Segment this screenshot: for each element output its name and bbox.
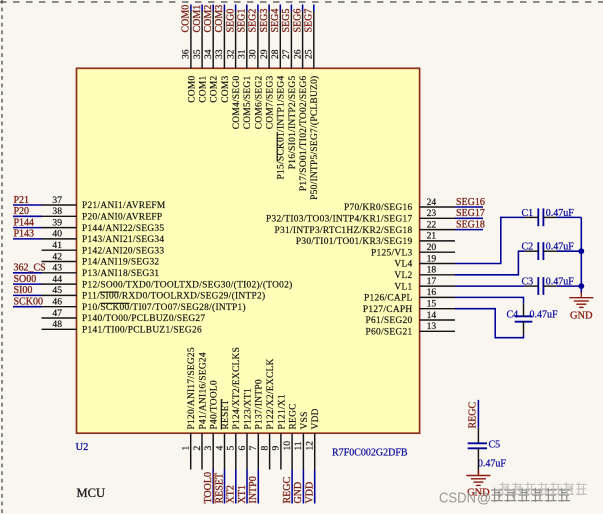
- svg-text:C4: C4: [507, 310, 519, 321]
- pin 37 of U2: [42, 204, 77, 206]
- svg-text:SEG7: SEG7: [304, 9, 315, 33]
- svg-text:P41/ANI16/SEG24: P41/ANI16/SEG24: [198, 352, 208, 429]
- pin 1 of C5: [477, 428, 479, 444]
- svg-text:11: 11: [293, 441, 304, 450]
- svg-text:SCK00: SCK00: [14, 297, 43, 308]
- svg-text:P50/INTP5/SEG7/(PCLBUZ0): P50/INTP5/SEG7/(PCLBUZ0): [309, 76, 320, 200]
- svg-text:P32/TI03/TO03/INTP4/KR1/SEG17: P32/TI03/TO03/INTP4/KR1/SEG17: [266, 215, 413, 225]
- pin 5 of U2: [235, 433, 237, 469]
- ground symbol (C5): [466, 471, 490, 486]
- wire VL2: pin18 to C2: [455, 251, 525, 275]
- svg-text:XT1: XT1: [237, 485, 248, 503]
- svg-text:P20: P20: [14, 206, 30, 217]
- pin 32 of U2: [235, 11, 237, 68]
- svg-text:COM3: COM3: [214, 5, 225, 33]
- sheet border top (dashed): [0, 1, 603, 3]
- capacitor C4: [515, 315, 533, 317]
- svg-text:COM3: COM3: [221, 75, 231, 102]
- pin 9 of U2: [280, 433, 282, 469]
- wire net SEG1 (top pin 31): [246, 5, 248, 12]
- svg-text:COM0: COM0: [187, 75, 197, 102]
- svg-text:RESET: RESET: [214, 473, 225, 504]
- pin 22 of U2: [420, 229, 455, 231]
- svg-text:XT2: XT2: [226, 485, 237, 503]
- svg-text:SEG0: SEG0: [225, 9, 236, 33]
- wire VL1: pin17 to C3: [455, 285, 525, 287]
- svg-text:P126/CAPL: P126/CAPL: [364, 294, 413, 304]
- capacitor C3: [537, 277, 539, 295]
- svg-text:P120/ANI17/SEG25: P120/ANI17/SEG25: [187, 347, 197, 429]
- svg-text:REGC: REGC: [467, 402, 478, 429]
- svg-text:41: 41: [52, 240, 62, 251]
- wire net |RESET| (bottom pin 4): [224, 470, 226, 504]
- wire net SEG17 (right pin 23): [455, 217, 483, 219]
- wire net XT1 (bottom pin 6): [246, 470, 248, 504]
- svg-text:48: 48: [52, 319, 62, 330]
- svg-text:43: 43: [52, 263, 62, 274]
- svg-text:32: 32: [225, 49, 236, 59]
- MCU U2 body rectangle (R7F0C002G2DFB): [77, 68, 420, 433]
- pin 44 of U2: [42, 283, 77, 285]
- pin 47 of U2: [42, 317, 77, 319]
- pin 13 of U2: [420, 330, 455, 332]
- svg-text:COM0: COM0: [181, 5, 192, 33]
- svg-text:SEG2: SEG2: [248, 9, 259, 33]
- svg-text:REGC: REGC: [282, 477, 293, 504]
- wire net SCK00 (left pin 46): [13, 306, 42, 308]
- svg-text:42: 42: [52, 251, 62, 262]
- pin 16 of U2: [420, 296, 455, 298]
- svg-text:C2: C2: [522, 242, 534, 253]
- pin 14 of U2: [420, 319, 455, 321]
- svg-text:47: 47: [52, 308, 62, 319]
- pins of C2: [525, 250, 539, 252]
- capacitor C1: [537, 208, 539, 226]
- wire C3 to GND bus: [557, 285, 581, 287]
- svg-text:7: 7: [248, 446, 259, 451]
- wire net P143 (left pin 40): [13, 238, 42, 240]
- svg-text:MCU: MCU: [77, 486, 105, 500]
- wire net REGC (to C5): [477, 400, 479, 428]
- wire net P144 (left pin 39): [13, 227, 42, 229]
- svg-text:P20/ANI0/AVREFP: P20/ANI0/AVREFP: [82, 213, 162, 223]
- capacitor C2: [537, 242, 539, 260]
- svg-text:362_CS: 362_CS: [14, 263, 46, 274]
- svg-text:SEG5: SEG5: [281, 9, 292, 33]
- svg-text:R7F0C002G2DFB: R7F0C002G2DFB: [332, 448, 408, 459]
- svg-text:COM4/SEG0: COM4/SEG0: [232, 75, 242, 129]
- svg-text:P17/SO01/TI02/TO02/SEG6: P17/SO01/TI02/TO02/SEG6: [299, 75, 309, 191]
- svg-text:1: 1: [181, 446, 192, 451]
- svg-text:SEG18: SEG18: [456, 219, 485, 230]
- svg-text:3: 3: [203, 446, 214, 451]
- wire net SEG7 (top pin 25): [313, 5, 315, 12]
- wire net 362_CS (left pin 43): [13, 272, 42, 274]
- svg-text:CSDN: CSDN: [439, 491, 476, 507]
- svg-text:VL2: VL2: [394, 271, 412, 281]
- pin 15 of U2: [420, 308, 455, 310]
- wire net COM0 (top pin 36): [190, 5, 192, 12]
- svg-text:34: 34: [203, 49, 214, 59]
- svg-text:0.47uF: 0.47uF: [478, 459, 507, 470]
- svg-text:P60/SEG21: P60/SEG21: [366, 328, 413, 338]
- svg-text:P143/ANI21/SEG34: P143/ANI21/SEG34: [82, 235, 164, 245]
- wire GND bus vertical: [580, 217, 582, 292]
- svg-text:REGC: REGC: [289, 403, 299, 429]
- wire net SO00 (left pin 44): [13, 283, 42, 285]
- svg-text:P144: P144: [14, 217, 35, 228]
- svg-text:SEG17: SEG17: [456, 208, 485, 219]
- svg-text:29: 29: [259, 49, 270, 59]
- wire net SI00 (left pin 45): [13, 294, 42, 296]
- svg-text:C3: C3: [522, 277, 534, 288]
- wire VL4: pin19 to C1: [455, 217, 525, 263]
- wire CAPL: pin16 to C4 top: [455, 297, 524, 303]
- pin 19 of U2: [420, 263, 455, 265]
- svg-text:VDD: VDD: [311, 408, 321, 429]
- wire net COM1 (top pin 35): [201, 5, 203, 12]
- svg-text:10: 10: [282, 441, 293, 451]
- svg-text:U2: U2: [76, 442, 89, 453]
- pin 8 of U2: [269, 433, 271, 469]
- svg-text:TOOL0: TOOL0: [203, 472, 214, 503]
- svg-text:COM1: COM1: [192, 5, 203, 33]
- pin 36 of U2: [190, 11, 192, 68]
- svg-text:23: 23: [427, 208, 437, 219]
- svg-text:2: 2: [192, 446, 203, 451]
- wire net P20 (left pin 38): [13, 215, 42, 217]
- wire net SEG16 (right pin 24): [455, 206, 483, 208]
- svg-text:P21/ANI1/AVREFM: P21/ANI1/AVREFM: [82, 201, 166, 211]
- svg-text:P124/XT2/EXCLKS: P124/XT2/EXCLKS: [232, 347, 242, 430]
- watermark CSDN (decorative): [439, 482, 587, 506]
- svg-text:30: 30: [248, 49, 259, 59]
- svg-text:C1: C1: [522, 208, 534, 219]
- svg-text:@: @: [477, 490, 491, 506]
- wire C2 to GND bus: [557, 250, 581, 252]
- pin 1 of U2: [190, 433, 192, 469]
- svg-text:5: 5: [226, 446, 237, 451]
- svg-text:GND: GND: [570, 311, 593, 322]
- pin 46 of U2: [42, 306, 77, 308]
- wire net INTP0 (bottom pin 7): [257, 470, 259, 504]
- svg-text:31: 31: [237, 49, 248, 59]
- sheet border left (dashed): [1, 0, 3, 514]
- pin 29 of U2: [268, 11, 270, 68]
- pin 25 of U2: [313, 11, 315, 68]
- pin 30 of U2: [257, 11, 259, 68]
- wire C1 to GND bus: [557, 216, 581, 218]
- svg-text:38: 38: [52, 206, 62, 217]
- svg-text:33: 33: [214, 49, 225, 59]
- svg-text:VL4: VL4: [394, 260, 412, 270]
- pin 28 of U2: [279, 11, 281, 68]
- svg-text:SEG6: SEG6: [292, 9, 303, 33]
- svg-text:P12/SO00/TXD0/TOOLTXD/SEG30/(T: P12/SO00/TXD0/TOOLTXD/SEG30/(TI02)/(TO02…: [82, 279, 293, 290]
- svg-text:P122/X2/EXCLK: P122/X2/EXCLK: [266, 358, 276, 429]
- pin 41 of U2: [42, 249, 77, 251]
- svg-text:P30/TI01/TO01/KR3/SEG19: P30/TI01/TO01/KR3/SEG19: [296, 237, 413, 247]
- svg-text:0.47uF: 0.47uF: [530, 310, 559, 321]
- svg-text:46: 46: [52, 297, 62, 308]
- svg-text:P144/ANI22/SEG35: P144/ANI22/SEG35: [82, 224, 164, 234]
- wire net SEG0 (top pin 32): [235, 5, 237, 12]
- svg-text:P40/TOOL0: P40/TOOL0: [210, 380, 220, 429]
- pin 48 of U2: [42, 328, 77, 330]
- wire net XT2 (bottom pin 5): [235, 470, 237, 504]
- svg-text:P121/X1: P121/X1: [277, 394, 287, 429]
- pin 35 of U2: [201, 11, 203, 68]
- svg-text:16: 16: [427, 287, 437, 298]
- svg-text:12: 12: [305, 441, 316, 451]
- svg-text:13: 13: [427, 321, 437, 332]
- pin 7 of U2: [257, 433, 259, 469]
- pin 42 of U2: [42, 261, 77, 263]
- svg-text:COM6/SEG2: COM6/SEG2: [254, 75, 264, 129]
- svg-text:37: 37: [52, 195, 62, 206]
- wire net SEG18 (right pin 22): [455, 229, 483, 231]
- wire net SEG2 (top pin 30): [257, 5, 259, 12]
- svg-text:15: 15: [427, 299, 437, 310]
- svg-text:35: 35: [192, 49, 203, 59]
- svg-text:21: 21: [427, 231, 437, 242]
- pins of C1: [525, 216, 539, 218]
- pin 12 of U2: [314, 433, 316, 469]
- wire net SEG5 (top pin 27): [290, 5, 292, 12]
- svg-text:COM5/SEG1: COM5/SEG1: [243, 75, 253, 129]
- svg-text:COM2: COM2: [210, 75, 220, 102]
- svg-text:C5: C5: [489, 440, 501, 451]
- pin 26 of U2: [302, 11, 304, 68]
- pin 24 of U2: [420, 206, 455, 208]
- pin 11 of U2: [302, 433, 304, 469]
- pin 2 of U2: [201, 433, 203, 469]
- svg-text:44: 44: [52, 274, 62, 285]
- svg-text:P61/SEG20: P61/SEG20: [366, 316, 413, 326]
- pin 3 of U2: [212, 433, 214, 469]
- pin 20 of U2: [420, 251, 455, 253]
- pin 4 of U2: [224, 433, 226, 469]
- pin 6 of U2: [246, 433, 248, 469]
- pin 34 of U2: [212, 11, 214, 68]
- pin 43 of U2: [42, 272, 77, 274]
- svg-text:P143: P143: [14, 229, 35, 240]
- svg-text:GND: GND: [293, 482, 304, 504]
- svg-text:36: 36: [181, 49, 192, 59]
- svg-text:6: 6: [237, 446, 248, 451]
- wire net GND (bottom pin 11): [302, 470, 304, 504]
- svg-text:SEG16: SEG16: [456, 197, 485, 208]
- svg-text:SI00: SI00: [14, 285, 33, 296]
- svg-text:P127/CAPH: P127/CAPH: [363, 305, 413, 315]
- wire CAPH: pin15 to C4 bottom: [455, 309, 524, 338]
- svg-text:COM7/SEG3: COM7/SEG3: [266, 75, 276, 129]
- svg-text:P15/SCK01/INTP1/SEG4: P15/SCK01/INTP1/SEG4: [277, 75, 287, 179]
- wire net TOOL0 (bottom pin 3): [212, 470, 214, 504]
- pin 18 of U2: [420, 274, 455, 276]
- wire net COM3 (top pin 33): [223, 5, 225, 12]
- svg-text:P142/ANI20/SEG33: P142/ANI20/SEG33: [82, 246, 164, 256]
- svg-text:39: 39: [52, 217, 62, 228]
- svg-text:VSS: VSS: [300, 411, 310, 429]
- svg-text:COM1: COM1: [199, 75, 209, 102]
- pin 17 of U2: [420, 285, 455, 287]
- wire net SEG4 (top pin 28): [279, 5, 281, 12]
- svg-text:RESET: RESET: [221, 399, 231, 429]
- pin 23 of U2: [420, 217, 455, 219]
- svg-text:28: 28: [270, 49, 281, 59]
- svg-text:SEG4: SEG4: [270, 9, 281, 33]
- svg-text:17: 17: [427, 276, 437, 287]
- pin 38 of U2: [42, 215, 77, 217]
- wire net VDD (bottom pin 12): [314, 470, 316, 504]
- svg-text:27: 27: [281, 49, 292, 59]
- svg-text:P137/INTP0: P137/INTP0: [255, 379, 265, 429]
- svg-text:P11/SI00/RXD0/TOOLRXD/SEG29/(I: P11/SI00/RXD0/TOOLRXD/SEG29/(INTP2): [82, 291, 265, 302]
- pin 40 of U2: [42, 238, 77, 240]
- pin 2 of C5: [477, 448, 479, 474]
- pin 31 of U2: [246, 11, 248, 68]
- wire net SEG3 (top pin 29): [268, 5, 270, 12]
- svg-text:P10/SCK00/TI07/TO07/SEG28/(INT: P10/SCK00/TI07/TO07/SEG28/(INTP1): [82, 302, 246, 313]
- svg-text:24: 24: [427, 197, 437, 208]
- svg-text:P14/ANI19/SEG32: P14/ANI19/SEG32: [82, 258, 159, 268]
- svg-text:19: 19: [427, 253, 437, 264]
- svg-text:SEG3: SEG3: [259, 9, 270, 33]
- capacitor C5: [468, 442, 487, 444]
- ground symbol (right bus): [569, 293, 593, 308]
- svg-text:P31/INTP3/RTC1HZ/KR2/SEG18: P31/INTP3/RTC1HZ/KR2/SEG18: [275, 226, 413, 236]
- svg-text:VL1: VL1: [394, 282, 412, 292]
- svg-text:SO00: SO00: [14, 274, 37, 285]
- svg-text:45: 45: [52, 285, 62, 296]
- svg-text:P13/ANI18/SEG31: P13/ANI18/SEG31: [82, 269, 159, 279]
- svg-text:SEG1: SEG1: [237, 9, 248, 33]
- wire net P21 (left pin 37): [13, 204, 42, 206]
- wire net COM2 (top pin 34): [212, 5, 214, 12]
- svg-text:40: 40: [52, 229, 62, 240]
- wire net SEG6 (top pin 26): [302, 5, 304, 12]
- pin 45 of U2: [42, 294, 77, 296]
- svg-text:14: 14: [427, 310, 437, 321]
- junction dot C3/bus: [578, 283, 584, 289]
- svg-text:VDD: VDD: [305, 482, 316, 504]
- svg-text:P16/SI01/INTP2/SEG5: P16/SI01/INTP2/SEG5: [288, 75, 298, 169]
- svg-text:8: 8: [259, 446, 270, 451]
- svg-text:4: 4: [214, 446, 225, 451]
- pin 33 of U2: [223, 11, 225, 68]
- svg-text:P123/XT1: P123/XT1: [243, 388, 253, 429]
- svg-text:18: 18: [427, 265, 437, 276]
- pin 10 of U2: [291, 433, 293, 469]
- pins of C4: [523, 303, 525, 316]
- svg-text:INTP0: INTP0: [248, 476, 259, 503]
- svg-text:P125/VL3: P125/VL3: [371, 248, 412, 258]
- svg-text:9: 9: [271, 446, 282, 451]
- svg-text:25: 25: [304, 49, 315, 59]
- wire net REGC (bottom pin 10): [291, 470, 293, 504]
- junction dot C2/bus: [578, 248, 584, 254]
- svg-text:26: 26: [292, 49, 303, 59]
- pin 21 of U2: [420, 240, 455, 242]
- svg-text:22: 22: [427, 219, 437, 230]
- svg-text:COM2: COM2: [203, 5, 214, 33]
- pin 39 of U2: [42, 227, 77, 229]
- svg-text:P140/TO00/PCLBUZ0/SEG27: P140/TO00/PCLBUZ0/SEG27: [82, 314, 205, 324]
- pin 27 of U2: [290, 11, 292, 68]
- svg-text:P21: P21: [14, 195, 30, 206]
- svg-text:20: 20: [427, 242, 437, 253]
- svg-text:P141/TI00/PCLBUZ1/SEG26: P141/TI00/PCLBUZ1/SEG26: [82, 326, 202, 336]
- pins of C3: [525, 285, 539, 287]
- svg-text:P70/KR0/SEG16: P70/KR0/SEG16: [344, 203, 413, 213]
